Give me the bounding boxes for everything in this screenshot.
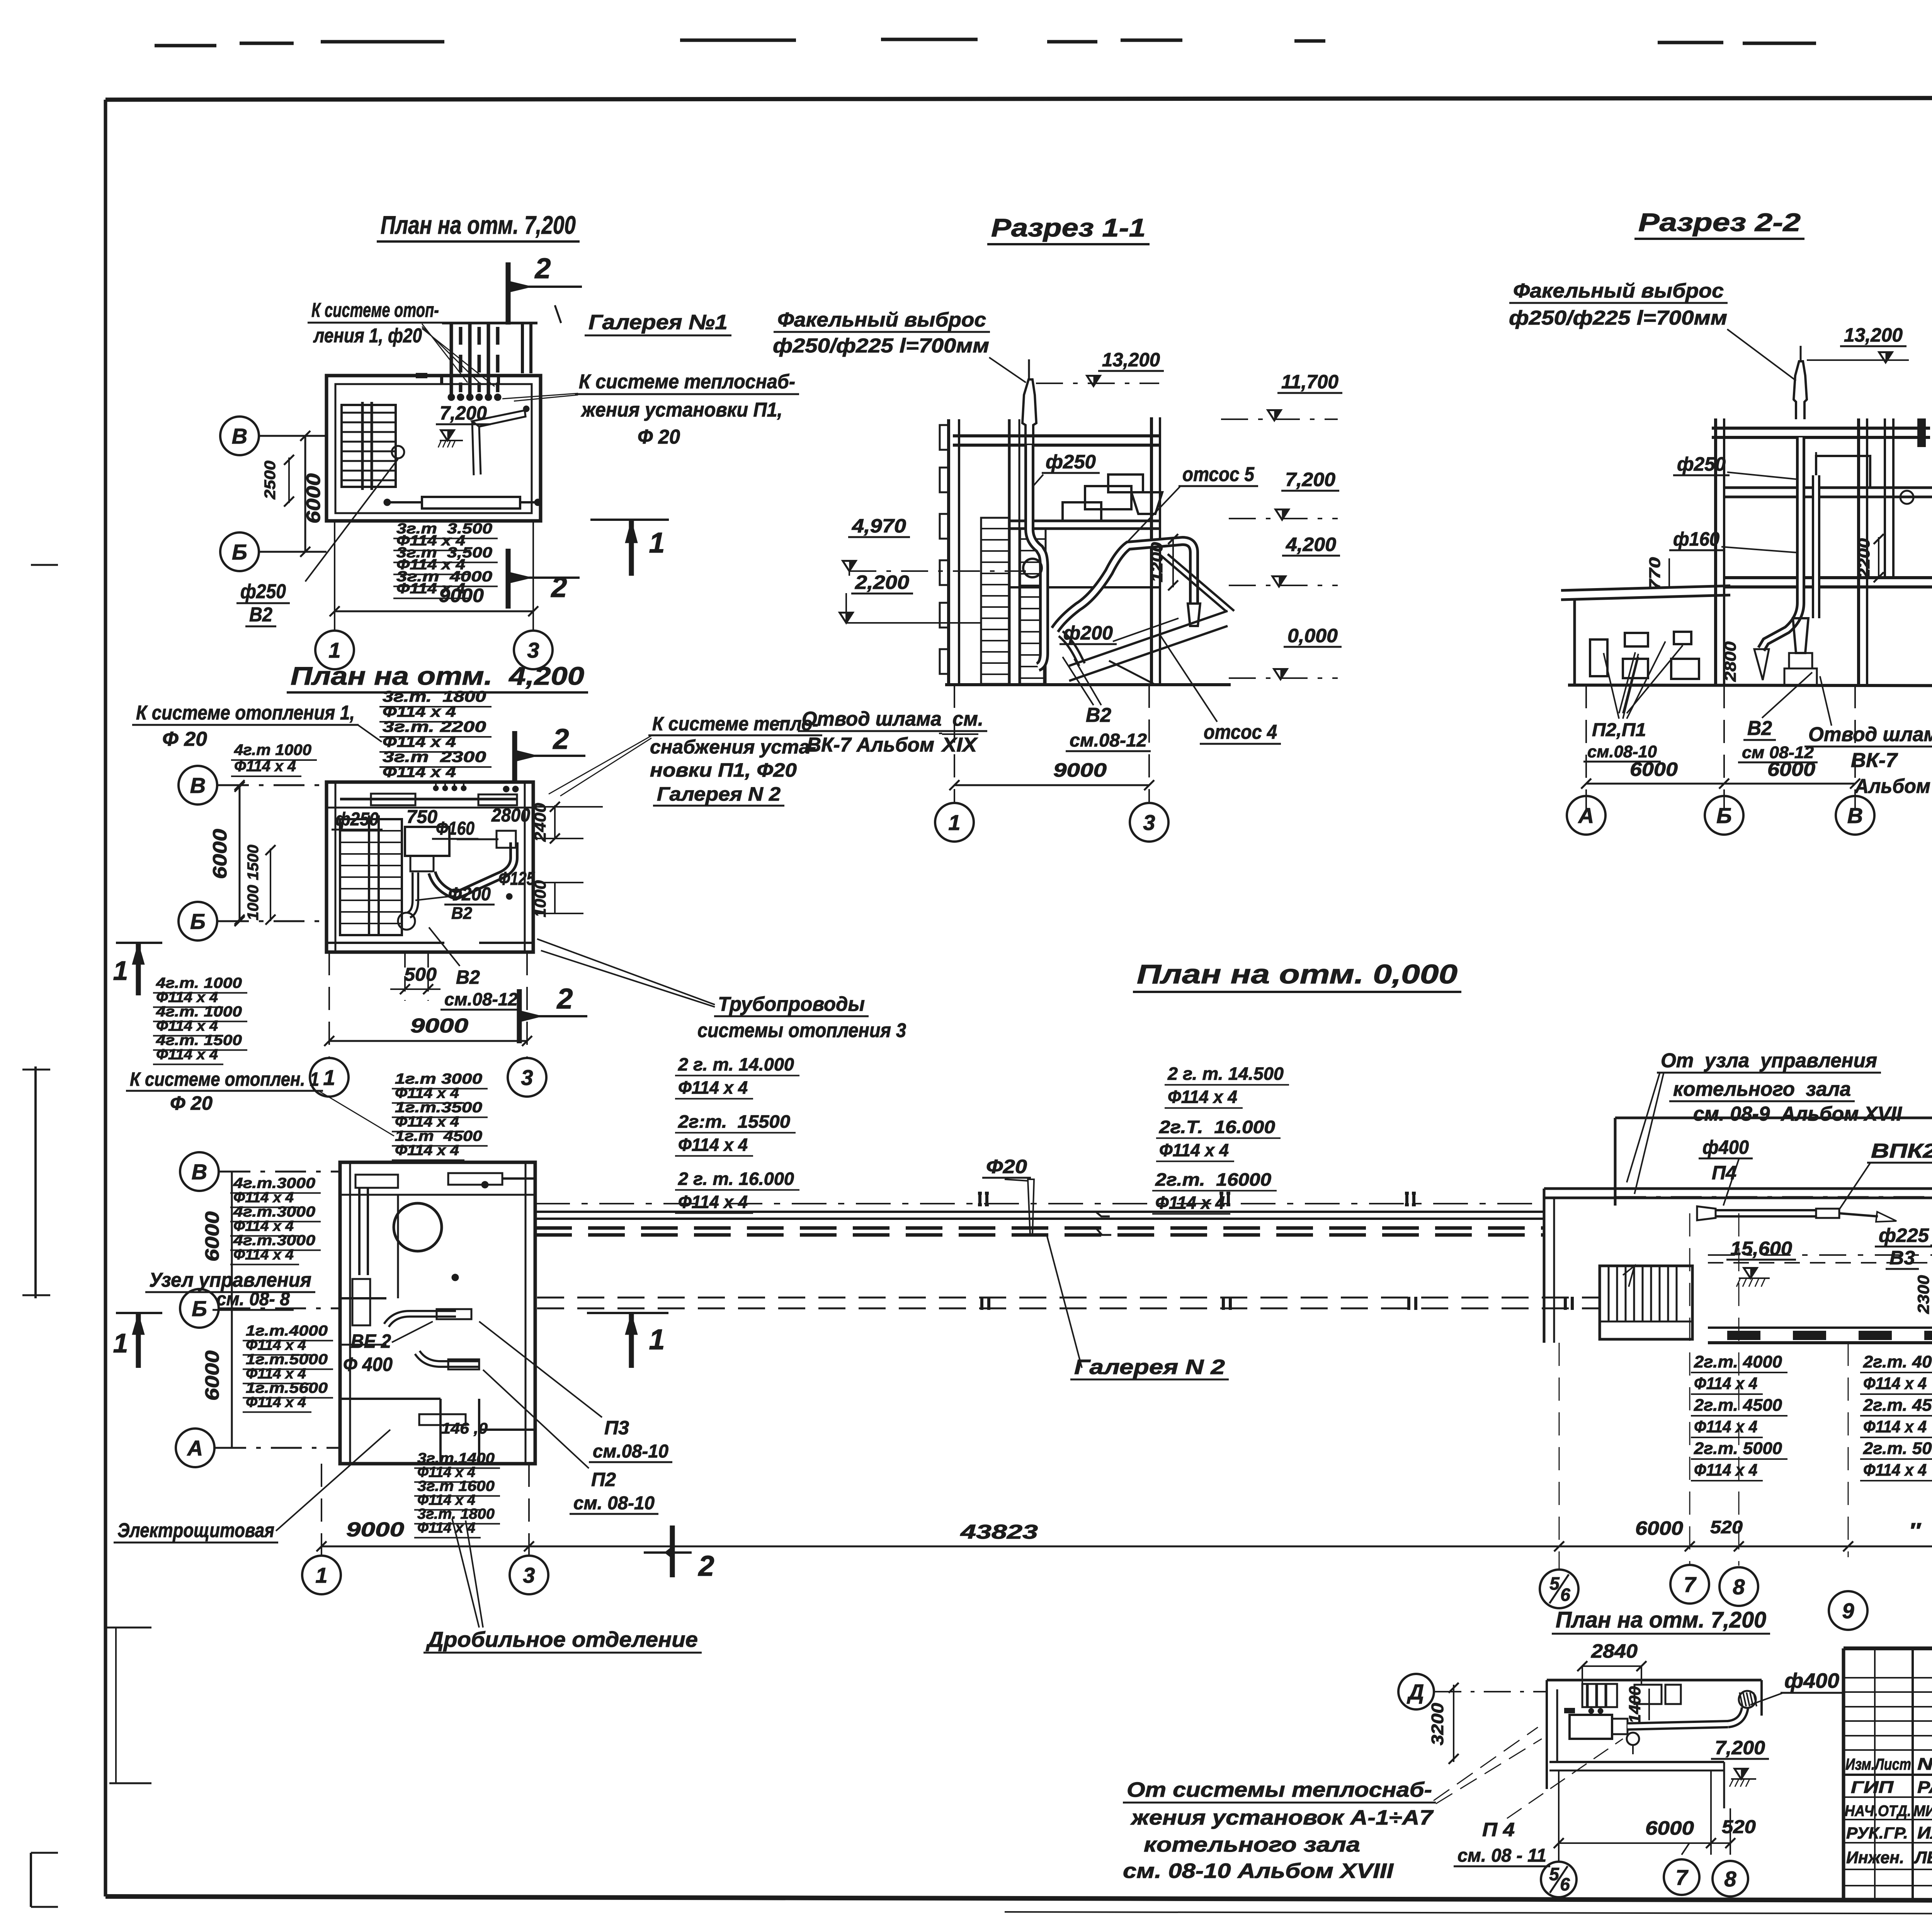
svg-text:жения установки П1,: жения установки П1,	[580, 399, 782, 421]
rotated dim 2200 (razrez 2-2)	[1855, 534, 1884, 582]
razrez 1-1 structure frame	[940, 417, 1231, 685]
label: Galereya No1	[585, 311, 731, 335]
rotated dims 2300 600 2300 (plan 0.000)	[1914, 1274, 1932, 1318]
svg-text:2500: 2500	[262, 461, 279, 500]
label Uzel upravleniya sm 08-8	[145, 1269, 315, 1310]
label VE 2 f400	[343, 1321, 433, 1375]
label B2 sm 08-12 (plan 4.200)	[429, 927, 522, 1010]
svg-text:В: В	[190, 773, 206, 798]
dim 2840 (small plan)	[1577, 1640, 1646, 1685]
section flag 2 bottom (plan 7.200)	[508, 549, 580, 609]
svg-text:Галерея N 2: Галерея N 2	[1074, 1355, 1225, 1379]
small plan fan and duct to elbow f400	[1570, 1691, 1757, 1754]
label K sisteme teplosnab right (plan 4.200)	[549, 713, 822, 806]
svg-text:1200: 1200	[1148, 542, 1166, 582]
svg-text:см.08-10: см.08-10	[593, 1441, 668, 1462]
plan 0.000 crusher circle	[394, 1203, 442, 1251]
svg-text:Ф20: Ф20	[986, 1156, 1027, 1177]
razrez 2-2 tall structure	[1712, 418, 1932, 685]
svg-text:2г.т. 4000: 2г.т. 4000	[1694, 1352, 1782, 1371]
grid circle V (plan 7.200)	[220, 417, 327, 455]
plan 4.200 machine and curved duct	[398, 827, 516, 930]
svg-text:ления 1, ф20: ления 1, ф20	[313, 325, 422, 347]
svg-text:см. 08-9 Альбом XVII: см. 08-9 Альбом XVII	[1693, 1103, 1903, 1125]
svg-text:6: 6	[1560, 1585, 1570, 1605]
svg-text:ГИП: ГИП	[1851, 1778, 1894, 1797]
razrez 2-2 chimney	[1794, 346, 1807, 419]
svg-text:4,200: 4,200	[1286, 534, 1336, 555]
svg-text:снабжения уста-: снабжения уста-	[650, 736, 816, 758]
svg-text:Ф114 х 4: Ф114 х 4	[395, 1143, 459, 1159]
grid circle 3 (razrez 1-1)	[1130, 803, 1168, 842]
svg-text:1: 1	[328, 638, 340, 662]
dim 9000 (plan 4.200)	[324, 952, 532, 1059]
svg-text:План на отм. 4,200: План на отм. 4,200	[291, 662, 584, 690]
svg-text:9000: 9000	[346, 1519, 404, 1541]
svg-text:жения установок А-1÷А7: жения установок А-1÷А7	[1130, 1806, 1434, 1829]
label: K sisteme teplosnabzheniya ustanovki P1 f20	[502, 371, 799, 448]
svg-text:В: В	[192, 1160, 207, 1184]
svg-text:3г.т. 2200: 3г.т. 2200	[383, 718, 486, 735]
galereya 1 pipes rising from plan	[442, 305, 561, 401]
svg-text:2: 2	[552, 723, 569, 755]
svg-text:Ф114 х 4: Ф114 х 4	[1863, 1417, 1927, 1436]
title: Razrez 1-1	[987, 213, 1150, 244]
svg-text:1г.т.5600: 1г.т.5600	[246, 1380, 328, 1396]
svg-text:1: 1	[323, 1065, 335, 1090]
svg-text:6000: 6000	[209, 829, 231, 879]
svg-text:Ф114 х 4: Ф114 х 4	[1159, 1140, 1229, 1160]
label: K sisteme otopleniya 1 f20	[308, 299, 495, 386]
svg-text:Б: Б	[192, 1296, 207, 1321]
svg-text:системы отопления 3: системы отопления 3	[697, 1019, 906, 1042]
label Truboprovody sistemy otopleniya 3	[537, 939, 906, 1042]
grid circle D (small plan)	[1398, 1674, 1547, 1709]
svg-text:А: А	[187, 1436, 203, 1460]
svg-text:4г.т.3000: 4г.т.3000	[233, 1233, 315, 1249]
grid circle B (plan 7.200)	[220, 532, 327, 571]
svg-text:9: 9	[1842, 1599, 1854, 1623]
svg-text:Ф114 х 4: Ф114 х 4	[246, 1337, 306, 1354]
svg-text:ф160: ф160	[1673, 528, 1719, 550]
svg-text:Галерея N 2: Галерея N 2	[657, 783, 781, 805]
svg-text:Отвод шлама см.: Отвод шлама см.	[1808, 723, 1932, 746]
section flag 2 (bottom of left building)	[644, 1526, 714, 1582]
razrez 1-1 boiler ladder hatch	[981, 518, 1046, 684]
svg-text:0,000: 0,000	[1287, 625, 1338, 646]
svg-text:6000: 6000	[303, 473, 324, 524]
label VPK2 N8	[1839, 1140, 1932, 1209]
svg-text:Разрез 2-2: Разрез 2-2	[1638, 208, 1801, 236]
svg-text:Электрощитовая: Электрощитовая	[117, 1519, 274, 1542]
svg-text:котельного зала: котельного зала	[1144, 1833, 1360, 1856]
label Otvod shlama (razrez 2-2)	[1804, 676, 1932, 798]
label: Fakelnyi vybros f250/f225 (razrez 1-1)	[773, 309, 1026, 383]
small circle with leader to f250 B2 label	[305, 446, 404, 582]
svg-text:4г.т. 1500: 4г.т. 1500	[156, 1032, 242, 1049]
label: Fakelnyi vybros f250/f225 (razrez 2-2)	[1509, 280, 1796, 381]
svg-text:ВК-7 Альбом: ВК-7 Альбом	[807, 734, 934, 756]
svg-text:5: 5	[1549, 1573, 1560, 1594]
svg-text:4г.т. 1000: 4г.т. 1000	[156, 1004, 242, 1020]
label Ot uzla upravleniya kotelnogo zala sm 08-9 Albom XVII	[1627, 1049, 1903, 1194]
svg-text:В3: В3	[1889, 1247, 1915, 1269]
svg-text:2: 2	[534, 252, 551, 284]
svg-text:ф250/ф225 l=700мм: ф250/ф225 l=700мм	[773, 335, 989, 357]
svg-text:2,200: 2,200	[855, 571, 909, 593]
svg-text:Б: Б	[232, 540, 247, 564]
labels inside plan 4.200: f250 750 2800 f160 f125 f200 B2	[332, 805, 535, 923]
svg-text:Ф114 х 4: Ф114 х 4	[383, 764, 456, 781]
level 4,970 (razrez 1-1)	[843, 515, 1026, 571]
svg-text:котельного зала: котельного зала	[1673, 1078, 1851, 1100]
title: Plan na otm 0,000	[1133, 959, 1461, 992]
label Otvod shlama sm VK-7 Albom XIX (razrez 1-1)	[777, 708, 987, 756]
svg-text:см. 08 - 11: см. 08 - 11	[1458, 1845, 1546, 1866]
rotated dim 3200 (small plan)	[1428, 1683, 1459, 1764]
svg-text:7: 7	[1675, 1865, 1689, 1889]
svg-text:В2: В2	[1086, 704, 1111, 726]
razrez 1-1 f250 duct	[1029, 445, 1044, 685]
svg-text:ВК-7: ВК-7	[1851, 749, 1898, 772]
svg-text:2: 2	[556, 983, 573, 1015]
plan 7.200 building walls	[327, 373, 541, 521]
svg-text:1г.т.4000: 1г.т.4000	[246, 1323, 328, 1339]
svg-text:ф250: ф250	[1046, 451, 1096, 473]
svg-text:13,200: 13,200	[1844, 324, 1903, 346]
grid circles 5/6 7 8 (plan 0.000)	[1540, 1565, 1758, 1608]
grid circle 1 (plan 7.200)	[315, 521, 354, 669]
plan 0.000 VPK2 pipe with nozzle	[1697, 1206, 1896, 1222]
svg-text:От системы теплоснаб-: От системы теплоснаб-	[1127, 1778, 1432, 1801]
section flag 1 right (plan 0.000)	[587, 1313, 668, 1368]
svg-text:Д: Д	[1407, 1680, 1424, 1704]
svg-text:НАЧ.ОТД.: НАЧ.ОТД.	[1845, 1803, 1911, 1820]
grid circle V (razrez 2-2)	[1836, 796, 1874, 835]
dim stack 2g.t 14.500/16.000/16000 (middle top of plan 0.000)	[1152, 1064, 1289, 1214]
svg-text:отсос 4: отсос 4	[1204, 721, 1277, 743]
dim stack 3g.t 1800/2200/2300 (plan 4.200)	[379, 688, 492, 782]
level 7,200 (small plan)	[1711, 1737, 1769, 1787]
svg-text:ф250: ф250	[335, 809, 379, 830]
label f200 (razrez 1-1)	[1060, 618, 1179, 644]
svg-text:ф200: ф200	[1063, 622, 1113, 644]
grid circle A (razrez 2-2)	[1567, 796, 1605, 835]
svg-text:Разрез 1-1: Разрез 1-1	[991, 213, 1146, 242]
svg-text:4г.т. 1000: 4г.т. 1000	[156, 975, 242, 992]
svg-text:9000: 9000	[1053, 759, 1107, 781]
level 2,200 (razrez 1-1)	[840, 571, 981, 623]
svg-text:План на отм. 7,200: План на отм. 7,200	[381, 211, 576, 239]
svg-text:6000: 6000	[1767, 759, 1815, 780]
section flag 2 top (plan 7.200)	[508, 252, 582, 325]
svg-text:1: 1	[948, 810, 960, 835]
svg-text:4г.т 1000: 4г.т 1000	[234, 742, 311, 759]
svg-text:7,200: 7,200	[1715, 1737, 1765, 1759]
title block staff rows	[1845, 1778, 1932, 1867]
svg-text:Ф114 х 4: Ф114 х 4	[678, 1078, 748, 1098]
svg-text:2300: 2300	[1914, 1275, 1932, 1314]
svg-text:Ф114 х 4: Ф114 х 4	[1863, 1461, 1927, 1480]
svg-text:2: 2	[697, 1550, 714, 1582]
svg-text:ВЕ 2: ВЕ 2	[351, 1330, 391, 1352]
svg-text:В2: В2	[451, 904, 473, 923]
svg-text:В2: В2	[249, 604, 272, 626]
svg-text:″: ″	[1909, 1518, 1921, 1543]
svg-text:3: 3	[521, 1065, 533, 1090]
svg-text:Ф114 х 4: Ф114 х 4	[1694, 1417, 1757, 1436]
svg-text:Инжен.: Инжен.	[1846, 1848, 1904, 1867]
title block left revision table grid	[1844, 1648, 1932, 1902]
svg-text:К системе отоп-: К системе отоп-	[311, 299, 439, 321]
svg-text:Ф160: Ф160	[436, 818, 474, 839]
svg-text:9000: 9000	[410, 1015, 468, 1037]
grid circle V (plan 4.200)	[179, 766, 327, 804]
svg-text:П3: П3	[604, 1417, 629, 1439]
svg-text:В: В	[1847, 803, 1863, 828]
grid circle 3 (plan 4.200)	[508, 1058, 546, 1097]
dim 9000 (plan 7.200)	[330, 585, 538, 616]
svg-text:ф250/ф225 l=700мм: ф250/ф225 l=700мм	[1509, 307, 1727, 329]
svg-text:1: 1	[649, 1323, 665, 1355]
plan 0.000 junction tower stairs	[1600, 1266, 1692, 1339]
svg-text:Ф114 х 4: Ф114 х 4	[1694, 1461, 1757, 1480]
svg-text:Ф114 х 4: Ф114 х 4	[395, 1085, 459, 1102]
plan 4.200 staircase	[340, 815, 402, 935]
svg-text:Галерея №1: Галерея №1	[588, 311, 728, 334]
svg-text:Отвод шлама см.: Отвод шлама см.	[802, 708, 983, 730]
svg-text:8: 8	[1724, 1867, 1736, 1891]
svg-text:Изм.Лист: Изм.Лист	[1845, 1755, 1911, 1773]
svg-text:2 г. т. 16.000: 2 г. т. 16.000	[678, 1169, 794, 1189]
plan 0.000 right building lower wall with column blocks	[1708, 1328, 1932, 1343]
title: Razrez 2-2	[1634, 208, 1804, 239]
plan 4.200 top pipe run with valves	[340, 782, 519, 805]
svg-text:3: 3	[523, 1563, 535, 1587]
grid circle 1 (plan 4.200)	[310, 1058, 349, 1097]
label P4 sm 08-11 (small plan)	[1454, 1739, 1623, 1866]
svg-text:6000: 6000	[201, 1211, 223, 1262]
grid circle B (plan 4.200)	[179, 902, 327, 940]
svg-text:1г.т.5000: 1г.т.5000	[246, 1352, 328, 1368]
labels P2 P1 sm 08-10 (razrez 2-2)	[1583, 641, 1665, 762]
svg-text:Ф114 х 4: Ф114 х 4	[156, 1047, 218, 1063]
dim stack 4g.t 1000 (plan 4.200)	[231, 742, 317, 776]
svg-text:П2: П2	[591, 1469, 616, 1490]
svg-text:3: 3	[1143, 810, 1155, 835]
svg-text:1000: 1000	[245, 885, 262, 920]
svg-text:1: 1	[113, 956, 128, 986]
razrez 1-1 suction pipes otcos	[1023, 541, 1200, 665]
svg-text:7,200: 7,200	[440, 402, 487, 424]
grid circle 3 bottom (plan 0.000)	[510, 1464, 548, 1594]
svg-text:Ф114 х 4: Ф114 х 4	[1168, 1087, 1237, 1107]
razrez 2-2 inner ducts	[1754, 437, 1817, 685]
svg-text:Ф114 х 4: Ф114 х 4	[156, 990, 218, 1006]
svg-text:N докум.: N докум.	[1917, 1755, 1932, 1774]
dim stack 1g.t 4000/5000/5600 (lower left plan 0.000)	[243, 1323, 333, 1412]
svg-text:К системе отопления 1,: К системе отопления 1,	[136, 702, 355, 724]
labels f225 V3 and 450 markers row	[1875, 1214, 1932, 1271]
svg-text:План на отм. 7,200: План на отм. 7,200	[1556, 1607, 1766, 1633]
svg-text:1000: 1000	[531, 880, 549, 917]
svg-text:Ф114 х 4: Ф114 х 4	[678, 1135, 748, 1155]
svg-text:1г.т 4500: 1г.т 4500	[395, 1128, 482, 1145]
svg-text:2г.т. 4500: 2г.т. 4500	[1863, 1396, 1932, 1415]
svg-text:Ф 20: Ф 20	[638, 426, 680, 448]
svg-text:2г.т. 4000: 2г.т. 4000	[1863, 1352, 1932, 1371]
title: Plan na otm 4,200	[287, 662, 588, 692]
section flag 1 left (plan 4.200)	[113, 943, 162, 995]
svg-text:Ф114 х 4: Ф114 х 4	[233, 1247, 294, 1263]
dims 6000 6000 (razrez 2-2)	[1581, 685, 1860, 811]
grid circle 1 (razrez 1-1)	[935, 803, 974, 842]
svg-text:Ф125: Ф125	[498, 869, 535, 889]
svg-text:см.08-12: см.08-12	[444, 989, 518, 1009]
vertical dims 6000 1000 1500 (plan 4.200)	[209, 782, 276, 925]
plan 0.000 left building outline	[340, 1162, 535, 1464]
svg-text:520: 520	[1710, 1517, 1743, 1537]
label f400 (small plan)	[1750, 1669, 1843, 1705]
svg-text:РУК.ГР.: РУК.ГР.	[1846, 1824, 1908, 1842]
rotated dim 770 (razrez 2-2)	[1646, 557, 1669, 590]
svg-text:6000: 6000	[201, 1350, 223, 1401]
f20 drain cone on corridor	[982, 1156, 1111, 1235]
svg-text:А: А	[1578, 803, 1594, 828]
svg-text:новки П1, Ф20: новки П1, Ф20	[650, 759, 797, 781]
svg-text:Ф114 х 4: Ф114 х 4	[234, 758, 296, 775]
svg-text:2г.т. 5000: 2г.т. 5000	[1694, 1439, 1782, 1458]
svg-text:Ф114 х 4: Ф114 х 4	[233, 1218, 294, 1235]
dim stack 3g.t (plan 7.200)	[393, 521, 498, 599]
title: Plan na otm 7,200	[377, 211, 580, 241]
section flag 2 top (plan 4.200)	[515, 723, 585, 784]
svg-text:1: 1	[315, 1563, 327, 1587]
section flag 1 left (plan 0.000)	[113, 1313, 162, 1368]
svg-text:2400: 2400	[531, 803, 549, 842]
svg-text:Б: Б	[190, 909, 206, 934]
svg-text:3200: 3200	[1428, 1702, 1447, 1745]
labels f400 P4 (plan 0.000 left end of right building)	[1699, 1136, 1753, 1206]
svg-text:3г.т. 1800: 3г.т. 1800	[383, 688, 486, 705]
svg-text:1400: 1400	[1626, 1686, 1644, 1723]
svg-text:4,970: 4,970	[852, 515, 906, 537]
svg-text:План на отм. 0,000: План на отм. 0,000	[1137, 959, 1458, 989]
labels P3 P2 sm 08-10	[479, 1321, 672, 1514]
plan 0.000 interior pipes and equipment	[352, 1173, 535, 1437]
svg-text:7,200: 7,200	[1285, 469, 1335, 490]
svg-text:4г.т.3000: 4г.т.3000	[233, 1204, 315, 1220]
svg-text:ВПК2 N8: ВПК2 N8	[1871, 1140, 1932, 1162]
svg-text:П2,П1: П2,П1	[1592, 720, 1646, 740]
svg-text:Ф114 х 4: Ф114 х 4	[383, 733, 456, 750]
svg-text:15,600: 15,600	[1730, 1238, 1792, 1259]
label Ot sistemy teplosnab A-1 A7 (bottom)	[1123, 1727, 1542, 1883]
svg-text:Ф114 х 4: Ф114 х 4	[678, 1192, 748, 1212]
svg-text:13,200: 13,200	[1102, 349, 1160, 371]
svg-text:500: 500	[404, 964, 437, 985]
svg-text:РАСКИН: РАСКИН	[1917, 1778, 1932, 1797]
svg-text:ф250: ф250	[240, 580, 286, 603]
svg-text:Ф114 х 4: Ф114 х 4	[395, 1114, 459, 1130]
grid circle 3 (plan 7.200)	[514, 521, 553, 669]
overall dim line 43823 with grid ticks	[316, 1517, 1932, 1551]
level 13,200 (razrez 2-2)	[1807, 324, 1909, 362]
svg-text:МИХАЛЕВСКИЙ: МИХАЛЕВСКИЙ	[1913, 1801, 1932, 1820]
dim stacks 4g.t / K sisteme / 1g.t (left of plan 0.000)	[126, 975, 488, 1160]
svg-text:1: 1	[113, 1328, 128, 1358]
svg-text:П 4: П 4	[1482, 1819, 1515, 1840]
svg-text:4г.т.3000: 4г.т.3000	[233, 1175, 315, 1192]
svg-text:К системе теплоснаб-: К системе теплоснаб-	[579, 371, 795, 393]
label Drobilnoe otdelenie	[423, 1519, 702, 1653]
grid circles 5/6 7 8 (small plan)	[1541, 1770, 1748, 1897]
svg-text:6000: 6000	[1645, 1817, 1694, 1839]
svg-text:Ф114 х 4: Ф114 х 4	[1155, 1193, 1225, 1213]
svg-text:2200: 2200	[1855, 538, 1873, 579]
svg-text:Ф114 х 4: Ф114 х 4	[233, 1190, 294, 1206]
svg-text:Ф114 х 4: Ф114 х 4	[246, 1366, 306, 1382]
svg-text:2г:т. 15500: 2г:т. 15500	[678, 1112, 790, 1132]
label f250 (razrez 2-2)	[1673, 453, 1796, 479]
svg-text:Ф 20: Ф 20	[162, 728, 207, 750]
svg-text:2г.т. 5000: 2г.т. 5000	[1863, 1439, 1932, 1458]
svg-text:2г.т. 4500: 2г.т. 4500	[1694, 1396, 1782, 1415]
label otsos 5	[1128, 463, 1258, 541]
label B2 sm 08-12 (razrez 2-2)	[1738, 672, 1818, 762]
dim 9000 bottom (plan 0.000 left)	[321, 1519, 529, 1546]
svg-text:В2: В2	[1747, 717, 1772, 740]
svg-text:520: 520	[1722, 1817, 1756, 1837]
svg-text:Ф114 х 4: Ф114 х 4	[246, 1395, 306, 1411]
title: Plan na otm 7,200 (bottom)	[1552, 1607, 1770, 1634]
svg-text:ф250: ф250	[1677, 453, 1726, 475]
label Elektroshchitovaya	[114, 1430, 390, 1543]
paper edge artifacts top	[155, 39, 1932, 100]
grid circles 9-13 (plan 0.000)	[1829, 1587, 1932, 1630]
svg-text:отсос 5: отсос 5	[1182, 463, 1255, 486]
svg-text:1г.т 3000: 1г.т 3000	[395, 1071, 482, 1087]
dim stack 2g.t 14.000/15500/16.000 (right of circle 3)	[675, 1054, 799, 1213]
svg-text:2 г. т. 14.000: 2 г. т. 14.000	[678, 1054, 794, 1075]
razrez 1-1 chimney with flare tip	[1022, 359, 1036, 444]
svg-text:Ф200: Ф200	[448, 884, 491, 905]
svg-text:2: 2	[550, 571, 567, 603]
plan 4.200 building walls	[327, 782, 533, 952]
svg-text:7: 7	[1684, 1572, 1697, 1597]
small plan pipes up cluster	[1582, 1684, 1681, 1714]
svg-text:6000: 6000	[1635, 1517, 1683, 1539]
svg-text:1: 1	[649, 527, 665, 559]
svg-text:3: 3	[527, 638, 539, 662]
title block revision table header texts	[1845, 1754, 1932, 1774]
razrez 1-1 equipment on 7.200 floor	[1063, 474, 1162, 521]
svg-text:6: 6	[1560, 1874, 1570, 1895]
grid verticals from right building to dim line	[1559, 1213, 1932, 1570]
label f160 (razrez 2-2)	[1669, 528, 1797, 553]
dim stacks 2g.t 4000/4500/5000 row (below right building)	[1691, 1352, 1932, 1481]
svg-text:В: В	[232, 424, 247, 448]
grid circle D right (plan 0.000)	[1615, 1178, 1932, 1216]
svg-text:Дробильное отделение: Дробильное отделение	[426, 1627, 698, 1651]
svg-text:Ф 400: Ф 400	[343, 1354, 393, 1375]
svg-text:Ф114 х 4: Ф114 х 4	[1863, 1374, 1927, 1393]
rotated dims 2400 1000 right side (plan 4.200)	[531, 802, 603, 917]
label K sisteme otopleniya 1 f20 (plan 4.200)	[132, 702, 382, 750]
plan 0.000 right building roof outline	[1544, 1114, 1932, 1343]
svg-text:Трубопроводы: Трубопроводы	[718, 993, 865, 1015]
svg-text:Ф 20: Ф 20	[170, 1092, 213, 1114]
